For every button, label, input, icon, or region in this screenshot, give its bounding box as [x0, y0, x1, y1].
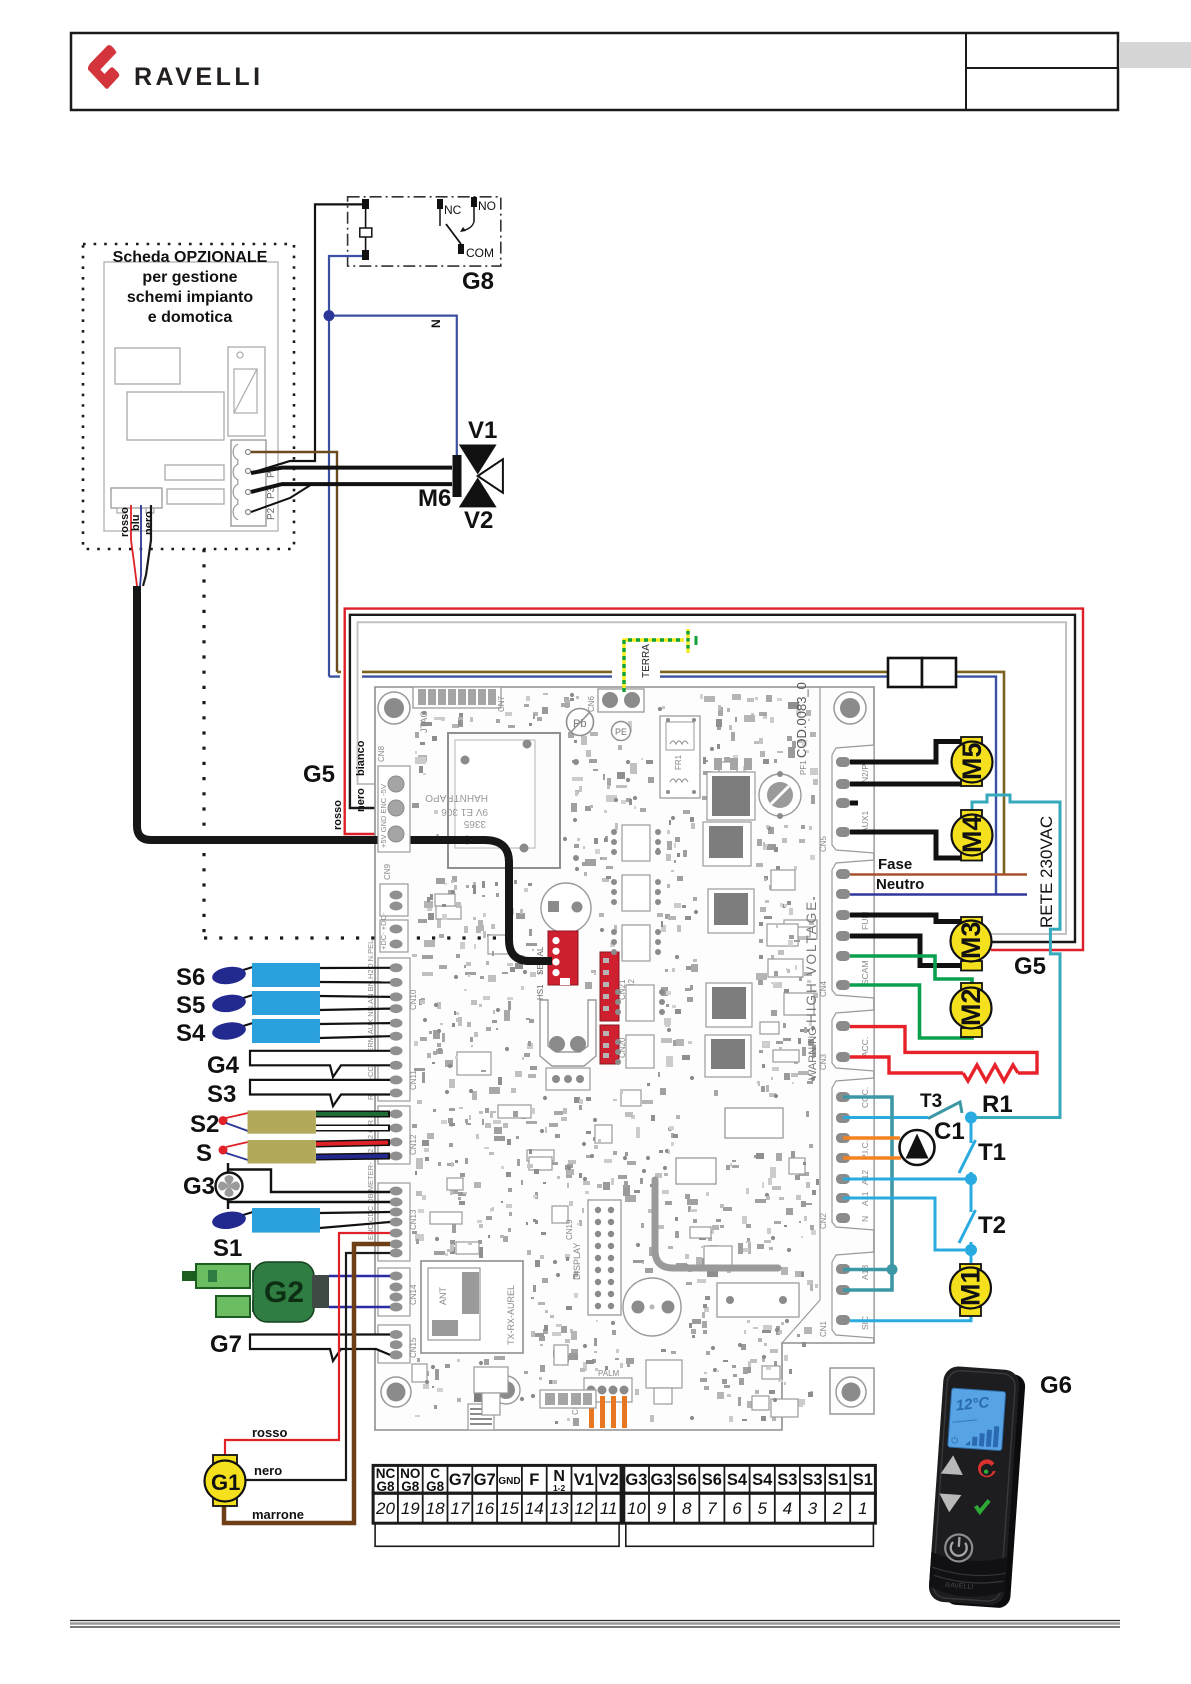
svg-text:CN11: CN11: [409, 1070, 418, 1090]
PCB board outline: [375, 687, 874, 1430]
svg-text:N: N: [860, 1216, 870, 1222]
thermostat T1: [959, 1118, 1006, 1180]
svg-text:G8: G8: [462, 268, 494, 295]
small bottom connectors P2 P1: [474, 1360, 682, 1415]
svg-text:schemi impianto: schemi impianto: [127, 289, 253, 306]
G5 encoder wire nero (black ring): [350, 615, 1075, 942]
svg-text:CN12: CN12: [409, 1134, 418, 1155]
svg-text:RETE 230VAC: RETE 230VAC: [1037, 816, 1056, 928]
svg-text:COM: COM: [466, 246, 494, 260]
thermostat T3: [843, 1091, 962, 1119]
probe G4: [207, 1051, 390, 1079]
svg-text:G3: G3: [183, 1173, 215, 1200]
svg-text:G7: G7: [449, 1471, 471, 1489]
G5 encoder wire bianco (silver ring): [358, 622, 1067, 934]
PE circle: [612, 722, 631, 741]
svg-text:CN6: CN6: [587, 695, 596, 712]
svg-text:16: 16: [475, 1499, 494, 1518]
svg-text:15: 15: [500, 1499, 519, 1518]
motor M4 black wire: [850, 832, 961, 858]
svg-text:S1: S1: [828, 1471, 848, 1489]
TERRA earth wire (yellow-green): [612, 629, 696, 692]
FR1 filter: [660, 716, 700, 798]
motor M3 wires: [850, 915, 961, 922]
big capacitor C2: [541, 883, 591, 933]
svg-text:V1: V1: [574, 1471, 594, 1489]
relays RL1 RL2 RL3: [676, 1108, 799, 1317]
svg-text:S1: S1: [853, 1471, 873, 1489]
svg-text:CN9: CN9: [383, 863, 392, 880]
svg-text:P2: P2: [266, 507, 277, 520]
motor M5 wires: [850, 742, 961, 763]
svg-text:18: 18: [426, 1499, 445, 1518]
svg-text:2: 2: [832, 1499, 843, 1518]
svg-text:G8: G8: [376, 1479, 395, 1494]
blue wire G8 / N to valve: [324, 256, 457, 677]
probe S3: [207, 1080, 390, 1108]
svg-text:12: 12: [574, 1499, 593, 1518]
cyan wires M1: [970, 1250, 973, 1266]
trimmer: [759, 771, 801, 819]
svg-text:NO: NO: [478, 199, 496, 213]
svg-text:G3: G3: [625, 1471, 647, 1489]
svg-text:Fase: Fase: [878, 856, 912, 873]
left pin pills: [390, 891, 403, 1360]
svg-text:11: 11: [600, 1499, 618, 1518]
svg-text:ANT: ANT: [438, 1286, 448, 1305]
svg-text:nero: nero: [355, 788, 367, 812]
svg-text:8: 8: [682, 1499, 692, 1518]
svg-text:Scheda OPZIONALE: Scheda OPZIONALE: [113, 249, 268, 266]
CN8 encoder pins: [388, 776, 404, 842]
svg-text:PF1: PF1: [799, 760, 808, 775]
svg-text:CN2: CN2: [819, 1212, 828, 1229]
logo RAVELLI: [88, 45, 264, 91]
buzzer BUZ1: [623, 1278, 681, 1336]
motor M4: [952, 810, 993, 861]
svg-text:HIGH VOLTAGE: HIGH VOLTAGE: [804, 900, 819, 1023]
sensor S2: [190, 1110, 390, 1138]
valve V1 V2 M6: [453, 445, 503, 508]
svg-text:e domotica: e domotica: [148, 309, 233, 326]
svg-text:HS1: HS1: [536, 984, 545, 1000]
motor G1: [205, 1425, 305, 1522]
svg-text:M5: M5: [957, 742, 987, 780]
svg-text:7: 7: [707, 1499, 717, 1518]
svg-text:CN19: CN19: [565, 1219, 574, 1240]
svg-text:9V E1 306: 9V E1 306: [441, 806, 488, 817]
maroon wire P5 to brown vertical: [251, 452, 337, 672]
svg-text:M2: M2: [956, 988, 986, 1026]
red connectors CN21 CN20: [600, 952, 636, 1064]
svg-text:G7: G7: [210, 1331, 242, 1358]
svg-text:13: 13: [550, 1499, 569, 1518]
teal wire M4 to RETE: [972, 795, 1060, 1118]
svg-text:1-2: 1-2: [553, 1483, 566, 1493]
svg-text:S5: S5: [176, 992, 205, 1019]
svg-text:G5: G5: [303, 761, 335, 788]
sensor S4: [176, 1019, 390, 1047]
svg-text:G6: G6: [1040, 1372, 1072, 1399]
wire marrone to G1: [224, 1244, 390, 1523]
svg-text:ACC.: ACC.: [860, 1037, 870, 1057]
dotted route from optional board to PCB: [204, 549, 496, 938]
svg-text:S3: S3: [802, 1471, 822, 1489]
svg-text:M4: M4: [957, 815, 987, 853]
terminal block table 1: [373, 1465, 621, 1546]
wire nero to G1: [246, 1253, 390, 1480]
svg-text:R1: R1: [982, 1091, 1013, 1118]
svg-text:CN7: CN7: [497, 695, 506, 712]
svg-text:T1: T1: [978, 1139, 1006, 1166]
heatsink: [540, 1000, 596, 1090]
svg-text:3365: 3365: [463, 818, 486, 829]
svg-text:19: 19: [401, 1499, 420, 1518]
svg-text:S6: S6: [176, 964, 205, 991]
motor M3 (G5 smoke extractor): [951, 917, 992, 971]
svg-text:V2: V2: [599, 1471, 619, 1489]
svg-text:M1: M1: [956, 1268, 986, 1306]
thick black cable to serial connector: [137, 586, 552, 961]
svg-text:3: 3: [808, 1499, 818, 1518]
transformer T1: [425, 733, 579, 868]
power transistors Q2 Q10 Q8 Q6: [703, 822, 754, 1077]
remote control G6: [928, 1365, 1026, 1608]
svg-text:+5V GND ENC -5V: +5V GND ENC -5V: [379, 784, 388, 848]
svg-text:rosso: rosso: [332, 800, 344, 830]
svg-text:RAVELLI: RAVELLI: [134, 63, 264, 91]
cyan wire A11: [843, 1198, 971, 1250]
svg-text:RT1- +CC- +TERM AUX NN.AN BN.H: RT1- +CC- +TERM AUX NN.AN BN.H2O N.PEL: [366, 940, 375, 1100]
svg-text:⏻: ⏻: [951, 1435, 959, 1445]
svg-text:bianco: bianco: [355, 740, 367, 776]
footer rule: [70, 1621, 1120, 1628]
scheda opzionale dashed box: [83, 244, 294, 586]
motor M5: [952, 737, 993, 786]
svg-text:FR1: FR1: [674, 754, 683, 770]
svg-text:CN15: CN15: [409, 1337, 418, 1358]
svg-text:S4: S4: [727, 1471, 748, 1489]
sensor S1: [211, 1208, 390, 1262]
svg-text:SIC: SIC: [860, 1316, 870, 1330]
relay G8 box: [348, 197, 501, 266]
motor M2: [951, 983, 992, 1037]
svg-text:N: N: [429, 319, 443, 328]
cyan wire A12: [843, 1178, 971, 1181]
thermostat T2: [959, 1179, 1006, 1250]
svg-text:PE: PE: [615, 727, 627, 737]
svg-text:nero: nero: [254, 1463, 282, 1478]
svg-text:S1: S1: [213, 1235, 242, 1262]
svg-text:G4: G4: [207, 1052, 240, 1079]
svg-text:G8: G8: [426, 1479, 445, 1494]
header frame: [71, 33, 1191, 110]
svg-text:A13: A13: [860, 1265, 870, 1280]
svg-text:V2: V2: [464, 507, 493, 534]
brown mains wire (top): [337, 672, 1004, 875]
svg-text:CN4: CN4: [819, 980, 828, 997]
svg-text:DISPLAY: DISPLAY: [572, 1243, 582, 1280]
JTAG connector CN7: [413, 687, 506, 733]
resistor R1 red loop: [850, 1027, 1037, 1118]
svg-text:ENC CDC DBIMETER- IN2 IN2 C.R: ENC CDC DBIMETER- IN2 IN2 C.R: [366, 1119, 375, 1240]
svg-text:+DC- +DC-: +DC- +DC-: [379, 912, 388, 950]
svg-text:G1: G1: [211, 1470, 240, 1495]
TX-RX-AUREL module: [421, 1261, 523, 1353]
svg-text:A12: A12: [860, 1170, 870, 1185]
svg-text:M3: M3: [956, 921, 986, 959]
valve wires M6: [251, 468, 452, 512]
svg-text:S2: S2: [190, 1111, 219, 1138]
sensor S6: [176, 963, 390, 991]
svg-text:G8: G8: [401, 1479, 420, 1494]
svg-text:CN5: CN5: [819, 835, 828, 852]
svg-text:SCAM: SCAM: [860, 960, 870, 985]
sensor S: [196, 1140, 390, 1167]
svg-text:PALM: PALM: [598, 1369, 620, 1378]
svg-text:rosso: rosso: [252, 1425, 287, 1440]
Pb crossed circle: [567, 709, 594, 736]
svg-text:CN13: CN13: [409, 1209, 418, 1230]
PCB mounting holes: [378, 692, 866, 1407]
sensor S5: [176, 991, 390, 1019]
svg-text:CN1: CN1: [819, 1320, 828, 1337]
left pin strip connector boxes: [366, 745, 418, 1363]
right connector boxes CN5 CN4 CN3 CN2 CN1: [819, 745, 874, 1338]
svg-text:G2: G2: [264, 1276, 304, 1309]
svg-text:12°C: 12°C: [955, 1394, 991, 1415]
svg-text:F: F: [529, 1471, 539, 1489]
svg-text:HAHNTRAPO: HAHNTRAPO: [425, 792, 488, 803]
svg-text:WARNING: WARNING: [807, 1027, 819, 1080]
svg-text:blu: blu: [130, 515, 142, 532]
Neutro wire: [850, 876, 1027, 895]
svg-text:V1: V1: [468, 417, 497, 444]
svg-text:6: 6: [732, 1499, 742, 1518]
Q3 power block: [707, 758, 755, 820]
svg-text:14: 14: [525, 1499, 544, 1518]
DISPLAY connector CN19: [565, 1200, 621, 1315]
IC column: [611, 825, 665, 1068]
svg-text:NC: NC: [444, 203, 462, 217]
svg-text:S4: S4: [752, 1471, 773, 1489]
svg-text:CN3: CN3: [819, 1053, 828, 1070]
svg-text:nero: nero: [143, 511, 155, 535]
svg-text:10: 10: [627, 1499, 646, 1518]
black wire G8 to optional board: [251, 204, 362, 473]
svg-text:JTAG: JTAG: [419, 711, 429, 733]
junction dots: [965, 1112, 977, 1124]
svg-text:S6: S6: [677, 1471, 697, 1489]
red connector CN22 serial: [536, 931, 578, 1000]
svg-text:M6: M6: [418, 485, 451, 512]
motor M1: [950, 1264, 991, 1316]
svg-text:per gestione: per gestione: [142, 269, 237, 286]
svg-text:1: 1: [858, 1499, 867, 1518]
PCB texture: [412, 693, 819, 1426]
blue mains wire (top): [329, 677, 996, 895]
probe G7: [210, 1331, 390, 1361]
svg-text:20: 20: [375, 1499, 395, 1518]
svg-text:4: 4: [783, 1499, 792, 1518]
fuse boxes: [888, 658, 956, 687]
svg-text:TERRA: TERRA: [641, 644, 652, 678]
svg-text:G7: G7: [474, 1471, 496, 1489]
svg-text:CN10: CN10: [409, 989, 418, 1010]
CN6 terra connector: [587, 689, 644, 712]
teal wire COC to A13: [843, 1097, 898, 1290]
svg-text:marrone: marrone: [252, 1507, 304, 1522]
encoder plug G2: [182, 1262, 390, 1322]
svg-text:17: 17: [450, 1499, 469, 1518]
svg-text:S3: S3: [777, 1471, 797, 1489]
svg-text:5: 5: [757, 1499, 767, 1518]
CN18 PALM connector with orange wires: [571, 1369, 632, 1428]
connector P2-P5 on optional board: [231, 440, 277, 526]
svg-text:COD.0083_0: COD.0083_0: [794, 682, 809, 758]
G5 encoder wire rosso (red ring): [345, 609, 1083, 950]
svg-text:C1: C1: [934, 1118, 965, 1145]
wire rosso to G1: [225, 1233, 390, 1459]
thick gray trace: [655, 1180, 778, 1268]
svg-text:S4: S4: [176, 1020, 206, 1047]
svg-text:TX-RX-AUREL: TX-RX-AUREL: [506, 1285, 516, 1345]
svg-text:G3: G3: [650, 1471, 672, 1489]
svg-text:S3: S3: [207, 1081, 236, 1108]
fan G3: [183, 1163, 390, 1209]
svg-text:S6: S6: [702, 1471, 722, 1489]
terminal block table 2: [624, 1465, 876, 1546]
svg-text:GND: GND: [498, 1476, 520, 1487]
Fase wire: [850, 856, 1027, 875]
helical antenna: [468, 1382, 494, 1430]
svg-text:T2: T2: [978, 1212, 1006, 1239]
svg-text:CN14: CN14: [409, 1284, 418, 1305]
svg-text:G5: G5: [1014, 953, 1046, 980]
pump C1: [843, 1118, 965, 1165]
svg-text:Neutro: Neutro: [876, 876, 924, 893]
right pin pills: [836, 757, 850, 1325]
left connector on optional board: [111, 488, 162, 513]
rosso blu nero wires from optional board: [119, 505, 155, 586]
svg-text:S: S: [196, 1140, 212, 1167]
svg-text:T3: T3: [920, 1091, 942, 1112]
motor M2 green wires: [850, 956, 972, 985]
svg-text:9: 9: [657, 1499, 667, 1518]
svg-text:CN8: CN8: [377, 745, 386, 762]
